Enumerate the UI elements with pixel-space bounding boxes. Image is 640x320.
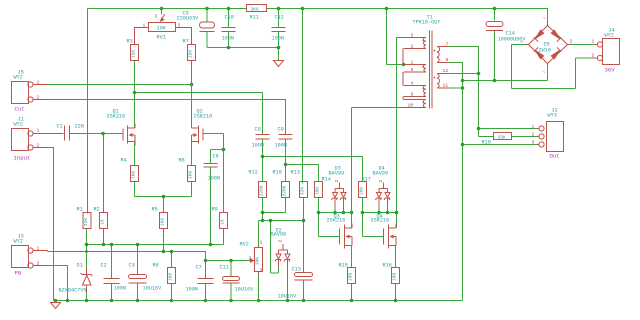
- resistor R2: [100, 213, 108, 229]
- transistor Q2 mirrored: [192, 124, 204, 146]
- label J1 name: [14, 117, 24, 128]
- label J5 name: [14, 70, 24, 81]
- label C6 value: [208, 154, 220, 182]
- wire Q4 source through R16 to ground: [395, 246, 397, 301]
- resistor R16: [392, 268, 400, 284]
- svg-text:220U63V: 220U63V: [177, 16, 200, 22]
- label C7 value: [186, 265, 202, 293]
- svg-text:8: 8: [446, 57, 449, 63]
- capacitor C7: [198, 279, 214, 284]
- label Q1: [107, 109, 126, 120]
- svg-text:33K: 33K: [300, 187, 306, 196]
- pin numbers J3: [37, 246, 40, 267]
- label C12 value: [272, 15, 284, 42]
- svg-text:1: 1: [592, 39, 595, 45]
- resistor R1: [83, 213, 91, 229]
- svg-text:1R0: 1R0: [392, 273, 398, 282]
- wire C11 bottom to rail: [230, 283, 232, 301]
- label RV1: [157, 26, 167, 41]
- svg-text:9: 9: [411, 92, 414, 98]
- svg-text:C1: C1: [57, 124, 63, 130]
- zener diode D1: [81, 268, 93, 293]
- svg-text:R2: R2: [94, 207, 100, 213]
- svg-text:2: 2: [411, 44, 414, 50]
- resistor R13: [300, 182, 308, 198]
- svg-text:Out: Out: [550, 153, 560, 160]
- svg-text:~: ~: [543, 17, 546, 22]
- pin number D3 pin2: [334, 180, 340, 183]
- connector J2 Out: [537, 122, 564, 152]
- label RV2: [240, 242, 261, 266]
- wire C9 bottom cross-coupling to R14: [284, 139, 319, 182]
- svg-text:4: 4: [411, 81, 414, 87]
- svg-text:R13: R13: [291, 170, 300, 176]
- label D1: [59, 263, 87, 294]
- label R10: [273, 170, 288, 197]
- resistor R3: [131, 45, 139, 61]
- svg-text:TPK15-OUT: TPK15-OUT: [413, 20, 441, 26]
- svg-text:2: 2: [155, 14, 158, 20]
- svg-text:5: 5: [411, 67, 414, 73]
- svg-text:100N: 100N: [114, 286, 126, 292]
- svg-text:2SK216: 2SK216: [327, 218, 346, 224]
- svg-text:D1: D1: [77, 263, 83, 269]
- wire V+ top rail: [88, 7, 548, 214]
- svg-text:7: 7: [446, 42, 449, 48]
- transformer T1 primary series connectors: [402, 49, 404, 100]
- label C8 value: [252, 127, 264, 149]
- wire bridge left corner to J4 pin2: [512, 45, 591, 89]
- svg-text:1: 1: [143, 23, 146, 29]
- transistor Q4: [384, 224, 397, 249]
- capacitor C13 polarized: [295, 273, 313, 281]
- wire RV2 pin3 to rail: [258, 272, 260, 301]
- svg-text:2: 2: [37, 261, 40, 267]
- wire ground rail y300: [54, 299, 463, 303]
- wire FB pin1 to RV2 wiper and C7 C11: [48, 229, 253, 279]
- label R4: [121, 158, 137, 180]
- svg-text:1K6: 1K6: [168, 273, 174, 282]
- svg-text:WY3: WY3: [548, 113, 557, 119]
- svg-text:10U16V: 10U16V: [235, 287, 255, 293]
- label C9 value: [275, 127, 287, 149]
- connector J1 Input: [12, 129, 61, 151]
- label Q3: [327, 214, 346, 224]
- label R9: [212, 207, 226, 225]
- svg-text:BAV99: BAV99: [329, 171, 345, 177]
- transistor Q3: [340, 224, 353, 249]
- svg-text:2W10: 2W10: [539, 48, 551, 54]
- label R7: [183, 39, 194, 59]
- svg-text:10K: 10K: [315, 187, 321, 196]
- label C14 value: [498, 31, 527, 43]
- label R12: [249, 170, 265, 197]
- transformer T1 pin numbers left: [408, 33, 414, 109]
- wire R6 column FB divider: [171, 284, 173, 301]
- label R17: [359, 177, 371, 196]
- svg-text:1: 1: [37, 80, 40, 86]
- svg-text:2: 2: [570, 39, 573, 45]
- capacitor C14 polarized: [486, 22, 503, 31]
- svg-text:C8: C8: [255, 127, 261, 133]
- pin numbers J1: [37, 128, 40, 149]
- transformer T1 primary winding 1-5: [404, 65, 427, 73]
- svg-text:RV1: RV1: [157, 35, 166, 41]
- bridge rectifier D5: [526, 21, 571, 68]
- wire transformer pin7 and pin12 to output connector: [449, 47, 537, 137]
- svg-text:C6: C6: [213, 154, 219, 160]
- wire Input pin2 to ground rail: [48, 148, 54, 301]
- svg-text:100N: 100N: [252, 143, 264, 149]
- svg-text:2SK216: 2SK216: [371, 218, 390, 224]
- wire Q2 gate to C6 and R9: [204, 134, 226, 213]
- svg-text:1: 1: [260, 240, 263, 246]
- svg-text:BAV99: BAV99: [373, 171, 389, 177]
- wire Cut pin1 to Q2 drain: [48, 83, 194, 87]
- svg-text:R14: R14: [322, 177, 331, 183]
- svg-text:10K: 10K: [359, 187, 365, 196]
- pin numbers J4: [592, 39, 595, 59]
- svg-text:BZX84C7V5: BZX84C7V5: [59, 288, 87, 294]
- pin numbers RV1: [143, 14, 181, 29]
- wire reference node bus y244: [85, 167, 224, 279]
- wire Q2 drain column: [191, 61, 193, 128]
- svg-text:15K: 15K: [188, 50, 194, 59]
- label J3 name: [14, 234, 24, 245]
- svg-text:R7: R7: [183, 39, 189, 45]
- transformer T1 pin numbers right: [443, 42, 449, 89]
- svg-text:2: 2: [378, 180, 384, 183]
- label C10 value: [222, 15, 234, 42]
- svg-text:100N: 100N: [275, 143, 287, 149]
- svg-text:2: 2: [37, 95, 40, 101]
- wire FB pin2 to ground rail: [48, 266, 68, 301]
- resistor R12: [259, 182, 267, 198]
- connector J4 36V: [591, 39, 620, 65]
- svg-text:2SK216: 2SK216: [194, 114, 213, 120]
- svg-text:10U16V: 10U16V: [278, 294, 298, 300]
- label D2: [271, 228, 287, 238]
- transformer T1 primary winding 4-9: [404, 86, 427, 97]
- wire C13 bottom to rail: [303, 280, 305, 301]
- svg-text:R1: R1: [77, 207, 83, 213]
- svg-text:2SK216: 2SK216: [107, 114, 126, 120]
- label R14: [315, 177, 331, 196]
- pin number D4 pin2: [378, 180, 384, 183]
- wire Q1 drain column: [134, 61, 136, 128]
- pin numbers J5: [37, 80, 40, 101]
- ground symbol bottom left: [51, 301, 61, 309]
- svg-text:3: 3: [532, 140, 535, 146]
- svg-text:1K: 1K: [220, 219, 226, 225]
- svg-text:R17: R17: [362, 177, 371, 183]
- bridge polarity marks: [521, 17, 573, 76]
- label Q2: [194, 109, 213, 120]
- svg-text:10: 10: [408, 103, 414, 109]
- pin numbers RV2: [249, 240, 263, 274]
- wire C8 bottom cross-coupling to R17: [261, 139, 363, 182]
- svg-text:R3: R3: [127, 39, 133, 45]
- wire bridge right corner to J4 pin1: [571, 44, 595, 46]
- transformer T1 primary winding 3-2: [397, 38, 427, 49]
- svg-text:3: 3: [411, 33, 414, 39]
- svg-text:1R0: 1R0: [348, 273, 354, 282]
- potentiometer RV1: [135, 14, 192, 45]
- label C2 value: [101, 263, 126, 292]
- svg-text:2: 2: [592, 53, 595, 59]
- resistor R10: [282, 182, 290, 198]
- label R8: [179, 158, 194, 180]
- svg-text:WY2: WY2: [605, 33, 614, 39]
- svg-text:Input: Input: [14, 155, 31, 162]
- label C13 value: [278, 267, 301, 300]
- label R11: [250, 7, 260, 21]
- svg-text:100N: 100N: [222, 36, 234, 42]
- label Q4: [371, 214, 390, 224]
- label J2 name: [548, 108, 558, 119]
- svg-text:2: 2: [37, 143, 40, 149]
- dual diode D2: [275, 244, 290, 267]
- svg-text:22K: 22K: [83, 218, 89, 227]
- wire Q3 gate group bus y212: [317, 198, 354, 237]
- label 36V: [605, 67, 616, 74]
- resistor R15: [348, 268, 356, 284]
- svg-text:R4: R4: [121, 158, 127, 164]
- svg-text:R16: R16: [383, 263, 392, 269]
- connector J5 Cut: [12, 82, 48, 104]
- svg-text:2: 2: [532, 132, 535, 138]
- svg-text:1: 1: [37, 246, 40, 252]
- label FB: [15, 270, 22, 277]
- wire C2 bottom to rail: [111, 284, 113, 301]
- svg-text:100N: 100N: [186, 287, 198, 293]
- wire D2 anodes to rail: [271, 267, 288, 301]
- svg-text:1K6: 1K6: [131, 171, 137, 180]
- svg-text:C7: C7: [196, 265, 202, 271]
- svg-text:R15: R15: [339, 263, 348, 269]
- wire Q1 drain to C8 top: [133, 91, 263, 135]
- svg-text:FB: FB: [15, 270, 22, 277]
- resistor R11: [247, 5, 267, 12]
- label D4: [373, 166, 389, 177]
- resistor R17: [359, 182, 367, 198]
- label R18: [482, 135, 507, 146]
- label Out: [550, 153, 560, 160]
- svg-text:22N: 22N: [75, 124, 84, 130]
- svg-text:R12: R12: [249, 170, 258, 176]
- svg-text:1K6: 1K6: [188, 171, 194, 180]
- resistor R8: [188, 166, 196, 182]
- svg-text:C9: C9: [278, 127, 284, 133]
- svg-text:36V: 36V: [605, 67, 616, 74]
- svg-text:3K6: 3K6: [251, 7, 260, 13]
- capacitor C11 polarized: [223, 277, 240, 284]
- svg-text:220K: 220K: [282, 185, 288, 196]
- wire AC line y80 C14 bottom to bridge: [463, 31, 548, 83]
- label Input: [14, 155, 31, 162]
- svg-text:R11: R11: [250, 15, 259, 21]
- svg-text:11: 11: [443, 83, 449, 89]
- wire Cut pin2 to C9 top: [48, 100, 286, 135]
- label C1 value: [57, 124, 84, 130]
- wire transformer pin10 column to Q3 drain: [352, 108, 400, 228]
- svg-text:10U16V: 10U16V: [143, 286, 163, 292]
- label J4 name: [605, 28, 615, 39]
- transformer T1 core: [430, 31, 433, 109]
- junction dots on V+ rail: [160, 7, 164, 11]
- svg-text:2: 2: [278, 240, 284, 243]
- svg-text:C3: C3: [129, 263, 135, 269]
- svg-text:R18: R18: [482, 140, 491, 146]
- svg-text:10000U50V: 10000U50V: [498, 37, 527, 43]
- label R6: [153, 263, 174, 282]
- svg-text:3: 3: [178, 23, 181, 29]
- capacitor C6: [204, 164, 218, 168]
- wire transformer pin8 and pin11 column to ground: [449, 63, 537, 301]
- wire differential pair source bus y196: [135, 182, 192, 213]
- label C3 value: [129, 263, 163, 292]
- svg-text:100N: 100N: [272, 36, 284, 42]
- svg-text:R9: R9: [212, 207, 218, 213]
- transistor Q1: [123, 124, 135, 146]
- label R5: [152, 207, 166, 227]
- label C11 value: [220, 265, 255, 293]
- resistor R9: [220, 213, 228, 229]
- transformer T1 secondary winding 12-11: [434, 74, 449, 89]
- wire Q2 source to R8: [191, 142, 193, 166]
- transformer T1 primary winding 9-10: [400, 100, 427, 108]
- wire C3 bottom to rail: [137, 283, 139, 301]
- svg-text:220K: 220K: [259, 185, 265, 196]
- svg-text:2: 2: [334, 180, 340, 183]
- svg-text:12: 12: [443, 68, 449, 74]
- svg-text:C2: C2: [101, 263, 107, 269]
- pin number D2 pin2: [278, 240, 284, 243]
- wire C7 bottom to rail: [205, 284, 207, 301]
- wire Input pin1 / C1 to Q1 gate and R2: [78, 132, 123, 213]
- svg-text:1: 1: [411, 60, 414, 66]
- label D5: [539, 42, 551, 54]
- wire D1 bottom to rail: [86, 291, 88, 301]
- svg-text:1: 1: [532, 124, 535, 130]
- svg-text:1K: 1K: [100, 219, 106, 225]
- label R15: [339, 263, 354, 282]
- wire Q4 gate group bus y212: [361, 38, 399, 237]
- resistor R6: [168, 268, 176, 284]
- svg-text:C10: C10: [225, 15, 234, 21]
- svg-text:R8: R8: [179, 158, 185, 164]
- label D3: [329, 166, 345, 177]
- dual diode D3: [332, 183, 347, 206]
- resistor R18: [494, 133, 512, 140]
- label R1: [77, 207, 90, 227]
- capacitor C2: [104, 279, 120, 284]
- resistor R7: [188, 45, 196, 61]
- label R13: [291, 170, 306, 196]
- wire filter-cap ground bus y47: [207, 32, 280, 61]
- capacitor C9: [279, 135, 293, 140]
- svg-text:R6: R6: [153, 263, 159, 269]
- svg-text:100N: 100N: [208, 176, 220, 182]
- label T1: [413, 15, 441, 26]
- connector J3 FB: [12, 246, 48, 269]
- resistor R4: [131, 166, 139, 182]
- potentiometer RV2: [250, 245, 263, 276]
- wire Q1 source to R4: [134, 142, 136, 166]
- label R3: [127, 39, 137, 59]
- dual diode D4: [376, 183, 391, 206]
- svg-text:R10: R10: [273, 170, 282, 176]
- pin numbers J2: [532, 124, 535, 146]
- capacitor C1: [61, 126, 78, 141]
- capacitor C10: [222, 28, 236, 32]
- label Cut: [15, 106, 25, 113]
- svg-text:WY2: WY2: [14, 122, 23, 128]
- capacitor C5 polarized: [200, 22, 215, 32]
- svg-text:C13: C13: [292, 267, 301, 273]
- svg-text:C11: C11: [220, 265, 229, 271]
- svg-text:3: 3: [260, 268, 263, 274]
- svg-text:15K: 15K: [131, 50, 137, 59]
- capacitor C12: [272, 28, 286, 32]
- label R16: [383, 263, 398, 282]
- ground symbol near C12: [274, 61, 284, 67]
- capacitor C8: [256, 135, 270, 140]
- svg-text:10K: 10K: [157, 26, 167, 32]
- capacitor C3 polarized: [129, 275, 147, 284]
- wire bias bus y220 to RV2 D2 C13: [259, 198, 306, 274]
- svg-text:WY2: WY2: [14, 75, 23, 81]
- label C5 value: [177, 11, 200, 22]
- svg-text:2: 2: [249, 256, 252, 262]
- wire Q3 source through R15 to ground: [351, 246, 353, 301]
- resistor R14: [315, 182, 323, 198]
- svg-text:RV2: RV2: [240, 242, 249, 248]
- svg-text:1K6: 1K6: [160, 218, 166, 227]
- svg-text:10K: 10K: [255, 257, 261, 266]
- svg-text:~: ~: [543, 71, 546, 76]
- resistor R5: [160, 213, 168, 229]
- svg-text:33K: 33K: [498, 135, 507, 141]
- svg-text:C12: C12: [275, 15, 284, 21]
- label R2: [94, 207, 106, 225]
- svg-text:1: 1: [37, 128, 40, 134]
- svg-text:BAV99: BAV99: [271, 232, 287, 238]
- transformer T1 secondary winding 7-8: [434, 47, 449, 63]
- svg-text:R5: R5: [152, 207, 158, 213]
- svg-text:WY2: WY2: [14, 239, 23, 245]
- svg-text:Cut: Cut: [15, 106, 25, 113]
